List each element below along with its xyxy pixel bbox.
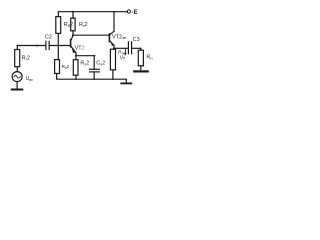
svg-text:VT2эп: VT2эп (112, 35, 126, 41)
svg-text:C2: C2 (45, 34, 52, 40)
svg-text:-E: -E (132, 10, 138, 16)
svg-text:Rб2: Rб2 (62, 64, 70, 70)
svg-text:Rб2: Rб2 (64, 22, 73, 28)
svg-text:Rэ2: Rэ2 (80, 60, 89, 66)
svg-text:Rн: Rн (146, 54, 152, 60)
svg-text:Uвх: Uвх (26, 76, 34, 82)
svg-text:Cэ2: Cэ2 (96, 60, 105, 66)
svg-text:Rк2: Rк2 (79, 22, 88, 28)
svg-text:C3: C3 (133, 37, 140, 43)
svg-text:Rг2: Rг2 (22, 56, 30, 62)
svg-text:Uн: Uн (120, 54, 125, 60)
svg-text:VT2: VT2 (75, 46, 85, 52)
